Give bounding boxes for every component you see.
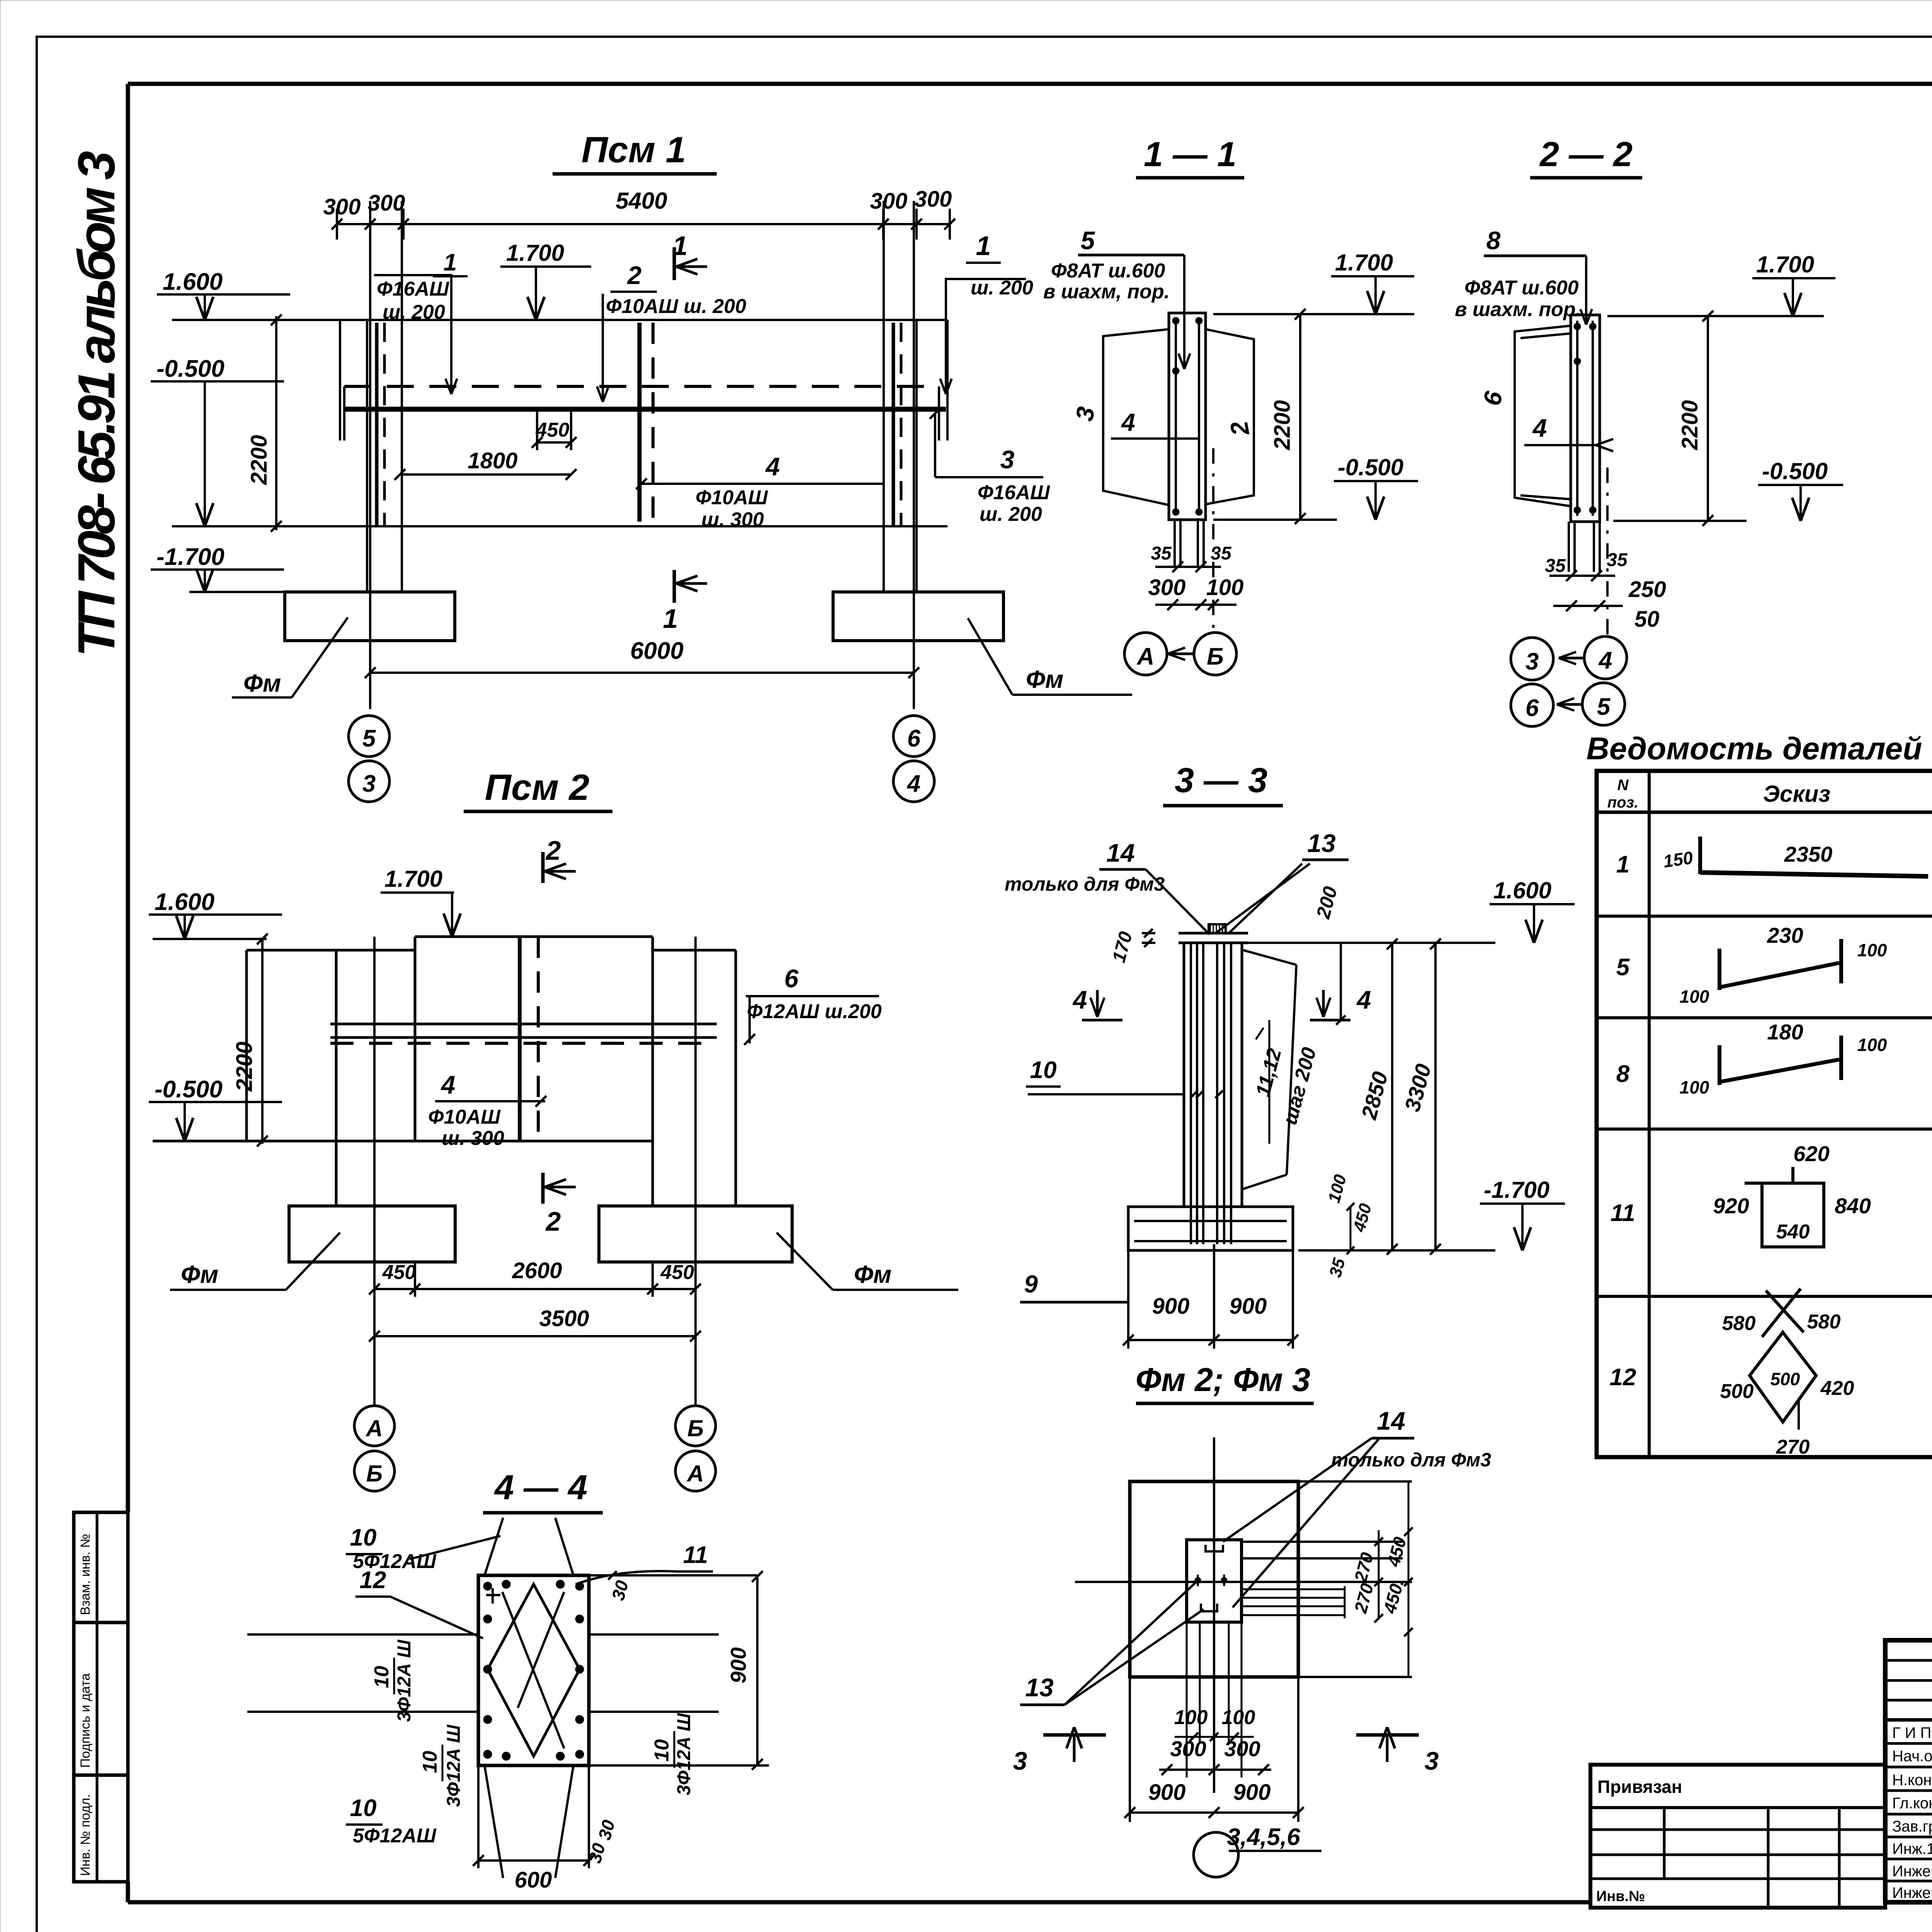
svg-text:3: 3 <box>1425 1747 1439 1775</box>
svg-text:Взам. инв. №: Взам. инв. № <box>78 1534 93 1615</box>
svg-text:5Ф12АШ: 5Ф12АШ <box>353 1825 437 1847</box>
svg-text:180: 180 <box>1767 1020 1803 1044</box>
svg-text:300: 300 <box>1170 1736 1206 1761</box>
svg-text:1.600: 1.600 <box>155 889 214 915</box>
svg-text:1.700: 1.700 <box>506 240 564 266</box>
svg-text:500: 500 <box>1720 1380 1754 1403</box>
svg-text:270: 270 <box>1776 1436 1810 1458</box>
svg-text:35: 35 <box>1545 556 1566 576</box>
svg-text:6: 6 <box>907 725 921 752</box>
svg-text:150: 150 <box>1662 847 1694 871</box>
svg-text:3: 3 <box>1526 648 1539 675</box>
svg-text:4: 4 <box>1532 413 1547 442</box>
svg-text:420: 420 <box>1820 1377 1854 1400</box>
svg-text:ш. 200: ш. 200 <box>980 503 1042 526</box>
svg-text:Ф16АШ: Ф16АШ <box>377 278 449 300</box>
svg-text:8: 8 <box>1486 226 1501 255</box>
svg-text:5: 5 <box>1597 694 1611 720</box>
svg-text:в шахм. пор.: в шахм. пор. <box>1455 298 1581 321</box>
svg-text:35: 35 <box>1211 543 1232 564</box>
svg-text:2: 2 <box>545 1206 561 1236</box>
svg-text:Ведомость деталей: Ведомость деталей <box>1587 731 1922 766</box>
svg-text:14: 14 <box>1106 838 1134 867</box>
svg-text:-0.500: -0.500 <box>156 355 224 382</box>
svg-text:900: 900 <box>1233 1780 1271 1805</box>
svg-text:1.700: 1.700 <box>1756 252 1814 277</box>
svg-text:Ф10АШ: Ф10АШ <box>696 486 768 509</box>
svg-text:250: 250 <box>1628 577 1666 602</box>
svg-text:5400: 5400 <box>616 188 667 214</box>
svg-text:ш. 300: ш. 300 <box>701 509 764 531</box>
svg-text:только для Фм3: только для Фм3 <box>1005 873 1165 895</box>
svg-text:2600: 2600 <box>512 1258 562 1283</box>
svg-text:10: 10 <box>419 1751 441 1773</box>
svg-text:2200: 2200 <box>1270 400 1295 450</box>
svg-text:Инв. № подл.: Инв. № подл. <box>78 1794 93 1876</box>
svg-text:100: 100 <box>1222 1706 1255 1729</box>
svg-text:50: 50 <box>1634 607 1660 632</box>
svg-text:Зав.гр.: Зав.гр. <box>1892 1818 1932 1835</box>
svg-text:4: 4 <box>1072 985 1087 1014</box>
svg-text:1 — 1: 1 — 1 <box>1144 135 1236 174</box>
svg-text:3500: 3500 <box>539 1306 589 1331</box>
svg-text:А: А <box>1136 643 1155 670</box>
svg-text:100: 100 <box>1857 940 1887 960</box>
svg-text:100: 100 <box>1174 1706 1208 1729</box>
svg-text:100: 100 <box>1857 1035 1887 1055</box>
svg-text:Инв.№: Инв.№ <box>1596 1888 1645 1905</box>
svg-text:5: 5 <box>1616 954 1630 981</box>
svg-text:Г И П: Г И П <box>1892 1725 1931 1742</box>
svg-text:Ф10АШ: Ф10АШ <box>428 1106 501 1128</box>
svg-text:4: 4 <box>906 770 920 797</box>
svg-text:1.600: 1.600 <box>163 269 223 295</box>
svg-text:540: 540 <box>1776 1221 1810 1243</box>
svg-text:8: 8 <box>1616 1061 1630 1087</box>
svg-text:4: 4 <box>765 452 780 481</box>
svg-text:2200: 2200 <box>1677 400 1702 450</box>
svg-text:500: 500 <box>1770 1369 1800 1389</box>
svg-text:3: 3 <box>1000 445 1015 474</box>
svg-text:Гл.констр.: Гл.констр. <box>1892 1795 1932 1812</box>
svg-text:3: 3 <box>362 770 376 797</box>
svg-text:1: 1 <box>1616 851 1629 878</box>
svg-text:2: 2 <box>545 835 561 866</box>
svg-text:1.700: 1.700 <box>384 866 442 892</box>
svg-text:Б: Б <box>687 1415 704 1441</box>
svg-text:10: 10 <box>1030 1057 1057 1083</box>
svg-text:Фм 2; Фм 3: Фм 2; Фм 3 <box>1136 1362 1310 1398</box>
svg-text:2: 2 <box>627 261 642 289</box>
svg-text:13: 13 <box>1025 1673 1053 1702</box>
svg-text:-1.700: -1.700 <box>156 544 224 570</box>
svg-text:300: 300 <box>915 187 952 212</box>
svg-text:Фм: Фм <box>1026 665 1063 693</box>
svg-text:920: 920 <box>1713 1194 1749 1218</box>
svg-text:4: 4 <box>1598 647 1612 674</box>
svg-text:1: 1 <box>976 231 991 261</box>
svg-text:2 — 2: 2 — 2 <box>1539 135 1633 174</box>
svg-text:поз.: поз. <box>1607 794 1638 811</box>
svg-text:1: 1 <box>444 249 457 276</box>
svg-text:ТП 708- 65.91 альбом 3: ТП 708- 65.91 альбом 3 <box>67 151 126 657</box>
svg-text:ш. 200: ш. 200 <box>383 301 445 323</box>
svg-text:Ф8АТ ш.600: Ф8АТ ш.600 <box>1051 260 1165 282</box>
svg-text:10: 10 <box>350 1795 377 1821</box>
svg-text:Эскиз: Эскиз <box>1763 781 1830 807</box>
svg-text:300: 300 <box>870 189 908 214</box>
svg-text:1.700: 1.700 <box>1335 250 1393 276</box>
svg-text:100: 100 <box>1680 1077 1709 1097</box>
svg-text:900: 900 <box>1230 1294 1267 1319</box>
svg-text:12: 12 <box>360 1567 386 1594</box>
svg-text:620: 620 <box>1793 1141 1829 1166</box>
svg-text:300: 300 <box>323 194 361 219</box>
svg-text:300: 300 <box>368 190 405 216</box>
svg-text:Фм: Фм <box>854 1260 891 1288</box>
svg-text:14: 14 <box>1377 1406 1405 1435</box>
svg-text:5: 5 <box>1081 226 1095 255</box>
svg-text:900: 900 <box>1152 1294 1190 1319</box>
svg-text:12: 12 <box>1610 1364 1636 1391</box>
svg-text:4 — 4: 4 — 4 <box>494 1468 587 1507</box>
svg-text:5: 5 <box>362 725 376 752</box>
svg-text:6: 6 <box>784 964 799 993</box>
svg-text:А: А <box>365 1415 383 1441</box>
svg-text:10: 10 <box>651 1739 673 1762</box>
svg-text:Н.контр.: Н.контр. <box>1892 1772 1932 1789</box>
svg-text:900: 900 <box>726 1647 750 1683</box>
svg-text:6000: 6000 <box>630 638 684 664</box>
svg-text:11: 11 <box>1611 1200 1635 1226</box>
svg-text:Инженер: Инженер <box>1892 1884 1932 1901</box>
svg-text:-0.500: -0.500 <box>1762 458 1828 484</box>
svg-text:Псм 1: Псм 1 <box>582 129 686 170</box>
svg-text:Б: Б <box>366 1461 383 1486</box>
svg-text:3Ф12А Ш: 3Ф12А Ш <box>444 1725 464 1807</box>
svg-text:N: N <box>1617 777 1629 794</box>
svg-text:Ф12АШ ш.200: Ф12АШ ш.200 <box>747 1000 882 1023</box>
svg-text:Ф16АШ: Ф16АШ <box>978 481 1050 504</box>
svg-text:Псм 2: Псм 2 <box>485 767 590 808</box>
svg-text:3: 3 <box>1013 1747 1027 1775</box>
svg-text:-0.500: -0.500 <box>155 1076 223 1103</box>
svg-text:Привязан: Привязан <box>1597 1777 1682 1797</box>
svg-text:Б: Б <box>1207 643 1224 670</box>
svg-text:2200: 2200 <box>247 435 272 485</box>
svg-text:1.600: 1.600 <box>1493 878 1551 903</box>
svg-text:3Ф12А Ш: 3Ф12А Ш <box>394 1639 415 1722</box>
svg-text:100: 100 <box>1206 575 1244 600</box>
svg-text:-0.500: -0.500 <box>1338 454 1403 480</box>
svg-text:35: 35 <box>1607 550 1628 570</box>
svg-text:900: 900 <box>1148 1780 1186 1805</box>
svg-text:450: 450 <box>382 1261 416 1284</box>
svg-text:1: 1 <box>663 604 678 634</box>
svg-text:1800: 1800 <box>468 448 517 473</box>
svg-text:-1.700: -1.700 <box>1484 1177 1549 1203</box>
svg-text:300: 300 <box>1148 575 1186 600</box>
svg-text:13: 13 <box>1307 829 1335 857</box>
svg-text:Ф10АШ ш. 200: Ф10АШ ш. 200 <box>606 295 746 318</box>
svg-text:10: 10 <box>371 1666 393 1688</box>
svg-text:450: 450 <box>660 1261 694 1284</box>
svg-text:в шахм, пор.: в шахм, пор. <box>1043 281 1170 303</box>
svg-text:840: 840 <box>1835 1194 1871 1218</box>
svg-text:3Ф12А Ш: 3Ф12А Ш <box>674 1713 694 1796</box>
svg-text:ш. 300: ш. 300 <box>442 1127 504 1150</box>
svg-text:230: 230 <box>1767 923 1803 947</box>
svg-text:10: 10 <box>350 1524 377 1551</box>
svg-text:4: 4 <box>440 1070 456 1099</box>
svg-text:Инженер: Инженер <box>1892 1863 1932 1880</box>
svg-text:Ф8АТ ш.600: Ф8АТ ш.600 <box>1464 277 1579 299</box>
svg-text:3 — 3: 3 — 3 <box>1175 761 1267 800</box>
svg-text:Подпись и дата: Подпись и дата <box>78 1673 93 1768</box>
svg-text:580: 580 <box>1807 1311 1841 1333</box>
svg-text:4: 4 <box>1356 985 1371 1014</box>
svg-text:3,4,5,6: 3,4,5,6 <box>1227 1824 1300 1850</box>
svg-text:9: 9 <box>1024 1270 1038 1298</box>
svg-text:Фм: Фм <box>243 669 281 697</box>
svg-text:Нач.отд.: Нач.отд. <box>1892 1748 1932 1765</box>
svg-text:Инж.1 кат: Инж.1 кат <box>1892 1840 1932 1857</box>
svg-text:6: 6 <box>1526 695 1539 721</box>
svg-text:100: 100 <box>1680 986 1709 1007</box>
svg-text:580: 580 <box>1722 1312 1756 1335</box>
svg-text:Фм: Фм <box>181 1260 218 1288</box>
svg-text:600: 600 <box>515 1867 552 1893</box>
svg-text:35: 35 <box>1151 543 1172 564</box>
svg-text:2200: 2200 <box>232 1041 257 1092</box>
svg-text:4: 4 <box>1121 408 1135 436</box>
svg-text:2350: 2350 <box>1784 842 1833 866</box>
svg-text:А: А <box>686 1461 704 1486</box>
svg-text:11: 11 <box>683 1542 708 1568</box>
